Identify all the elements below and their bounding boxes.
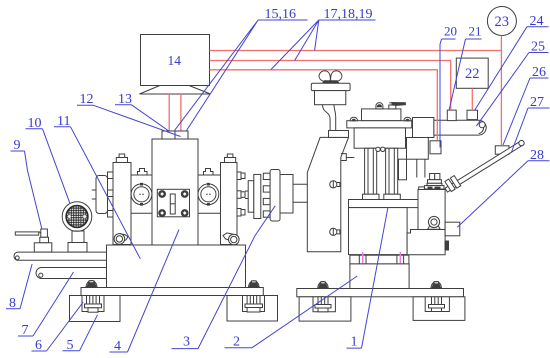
gearbox central block 4 [152, 139, 198, 246]
svg-text:22: 22 [465, 66, 480, 82]
red cable 15 [168, 94, 170, 131]
front plate with bolts on gearbox [157, 189, 189, 217]
coupling bolt column [263, 173, 270, 217]
left bearing flange circle [131, 183, 152, 205]
svg-text:3: 3 [183, 335, 190, 350]
label 20 [440, 24, 457, 148]
right machine right foot [413, 282, 465, 321]
red cable 16 [180, 94, 182, 131]
base block of left machine [107, 245, 246, 288]
lock nut under right stand [223, 233, 239, 245]
right foot block [227, 296, 278, 322]
pressure gauge circle 23 [487, 7, 516, 36]
manifold pipe 25 [434, 120, 486, 135]
red line 18 [210, 61, 451, 111]
gearbox top shoulder tabs [138, 169, 214, 176]
right machine left foot [299, 282, 351, 322]
label 15 16 [175, 7, 308, 131]
motor 10 [62, 202, 92, 252]
label 27 [512, 95, 550, 152]
label 12 [77, 92, 181, 137]
svg-text:20: 20 [444, 24, 457, 39]
pump mid block 1 [349, 208, 408, 255]
right shaft band [198, 175, 221, 213]
svg-text:21: 21 [469, 24, 482, 39]
sensor box 13 [175, 131, 188, 139]
label 6 [32, 302, 84, 353]
label 3 [172, 206, 276, 350]
rail 1 upper [14, 252, 107, 260]
coupling disc small [248, 181, 254, 213]
label 13 [115, 92, 170, 132]
connector block to manifold [413, 118, 434, 138]
label 2 [225, 276, 358, 350]
pump flange [347, 117, 412, 128]
stud bolts motor-side [108, 172, 114, 217]
red line 17 [210, 50, 502, 52]
pump upper band [349, 200, 422, 208]
red line circle23 to block26 [500, 36, 502, 146]
pump bracket stand [307, 137, 348, 251]
motor output flange [92, 176, 108, 214]
lever rod 27 [445, 140, 524, 192]
right bearing stand [221, 154, 238, 245]
handle device 9 [15, 229, 52, 252]
label 26 [503, 65, 549, 145]
label 24 [475, 14, 549, 111]
coupling flange to pump [280, 175, 293, 214]
left foot block [70, 296, 121, 322]
label 9 [11, 138, 43, 230]
label 7 [18, 272, 74, 338]
sensor box 12 [162, 131, 175, 139]
left foot: dome nut [86, 281, 97, 288]
label 17 18 19 [271, 7, 376, 70]
label 25 [477, 40, 549, 126]
control box 22 [456, 58, 488, 88]
svg-text:14: 14 [168, 53, 182, 68]
label 1 [347, 207, 389, 350]
label 10 [26, 116, 70, 203]
controller box 14 [141, 35, 210, 86]
red line box22 to port [471, 88, 473, 110]
foundation plate right machine [297, 289, 464, 297]
lock nut under left stand [114, 234, 128, 245]
pump pedestal [350, 264, 409, 289]
pump columns [363, 147, 401, 199]
svg-text:12: 12 [80, 92, 94, 107]
label 8 [6, 264, 32, 311]
pump body [354, 128, 405, 148]
coupling shaft left [245, 191, 248, 199]
column under block [417, 159, 425, 177]
port 24 on manifold [467, 110, 478, 119]
coupling stud bolts right of stand [237, 172, 245, 216]
rail 2 lower [36, 268, 107, 279]
hex bolt on valve [419, 174, 444, 190]
stand funnel under box 14 [140, 86, 211, 95]
bracket side link [341, 154, 355, 161]
block below manifold left [407, 138, 429, 160]
coupling hub [270, 170, 280, 222]
pressure block 26 [495, 146, 509, 154]
small side block on pump mid [399, 159, 407, 180]
label 11 [54, 114, 140, 259]
valve block assembly [407, 190, 460, 255]
pump band2 with tensioner marks [350, 252, 409, 266]
label 5 [63, 315, 98, 353]
red line 19 [210, 70, 438, 141]
pump top block [362, 103, 406, 121]
funnel cup on pump [311, 71, 350, 138]
coupling disc large 3 [254, 174, 261, 218]
svg-text:1: 1 [351, 335, 358, 350]
svg-text:23: 23 [495, 14, 510, 30]
left shaft band [131, 175, 152, 213]
port 21 on manifold [447, 110, 456, 121]
left bearing stand 11 [113, 154, 131, 245]
bottom plate of left machine [81, 288, 263, 296]
right bearing flange circle [198, 183, 219, 205]
label 28 [457, 148, 549, 228]
right foot: dome nut [249, 281, 260, 288]
label 21 [449, 24, 482, 111]
label 4 [110, 230, 180, 355]
sensor box 20 [430, 141, 441, 154]
pump input shaft [293, 184, 307, 202]
